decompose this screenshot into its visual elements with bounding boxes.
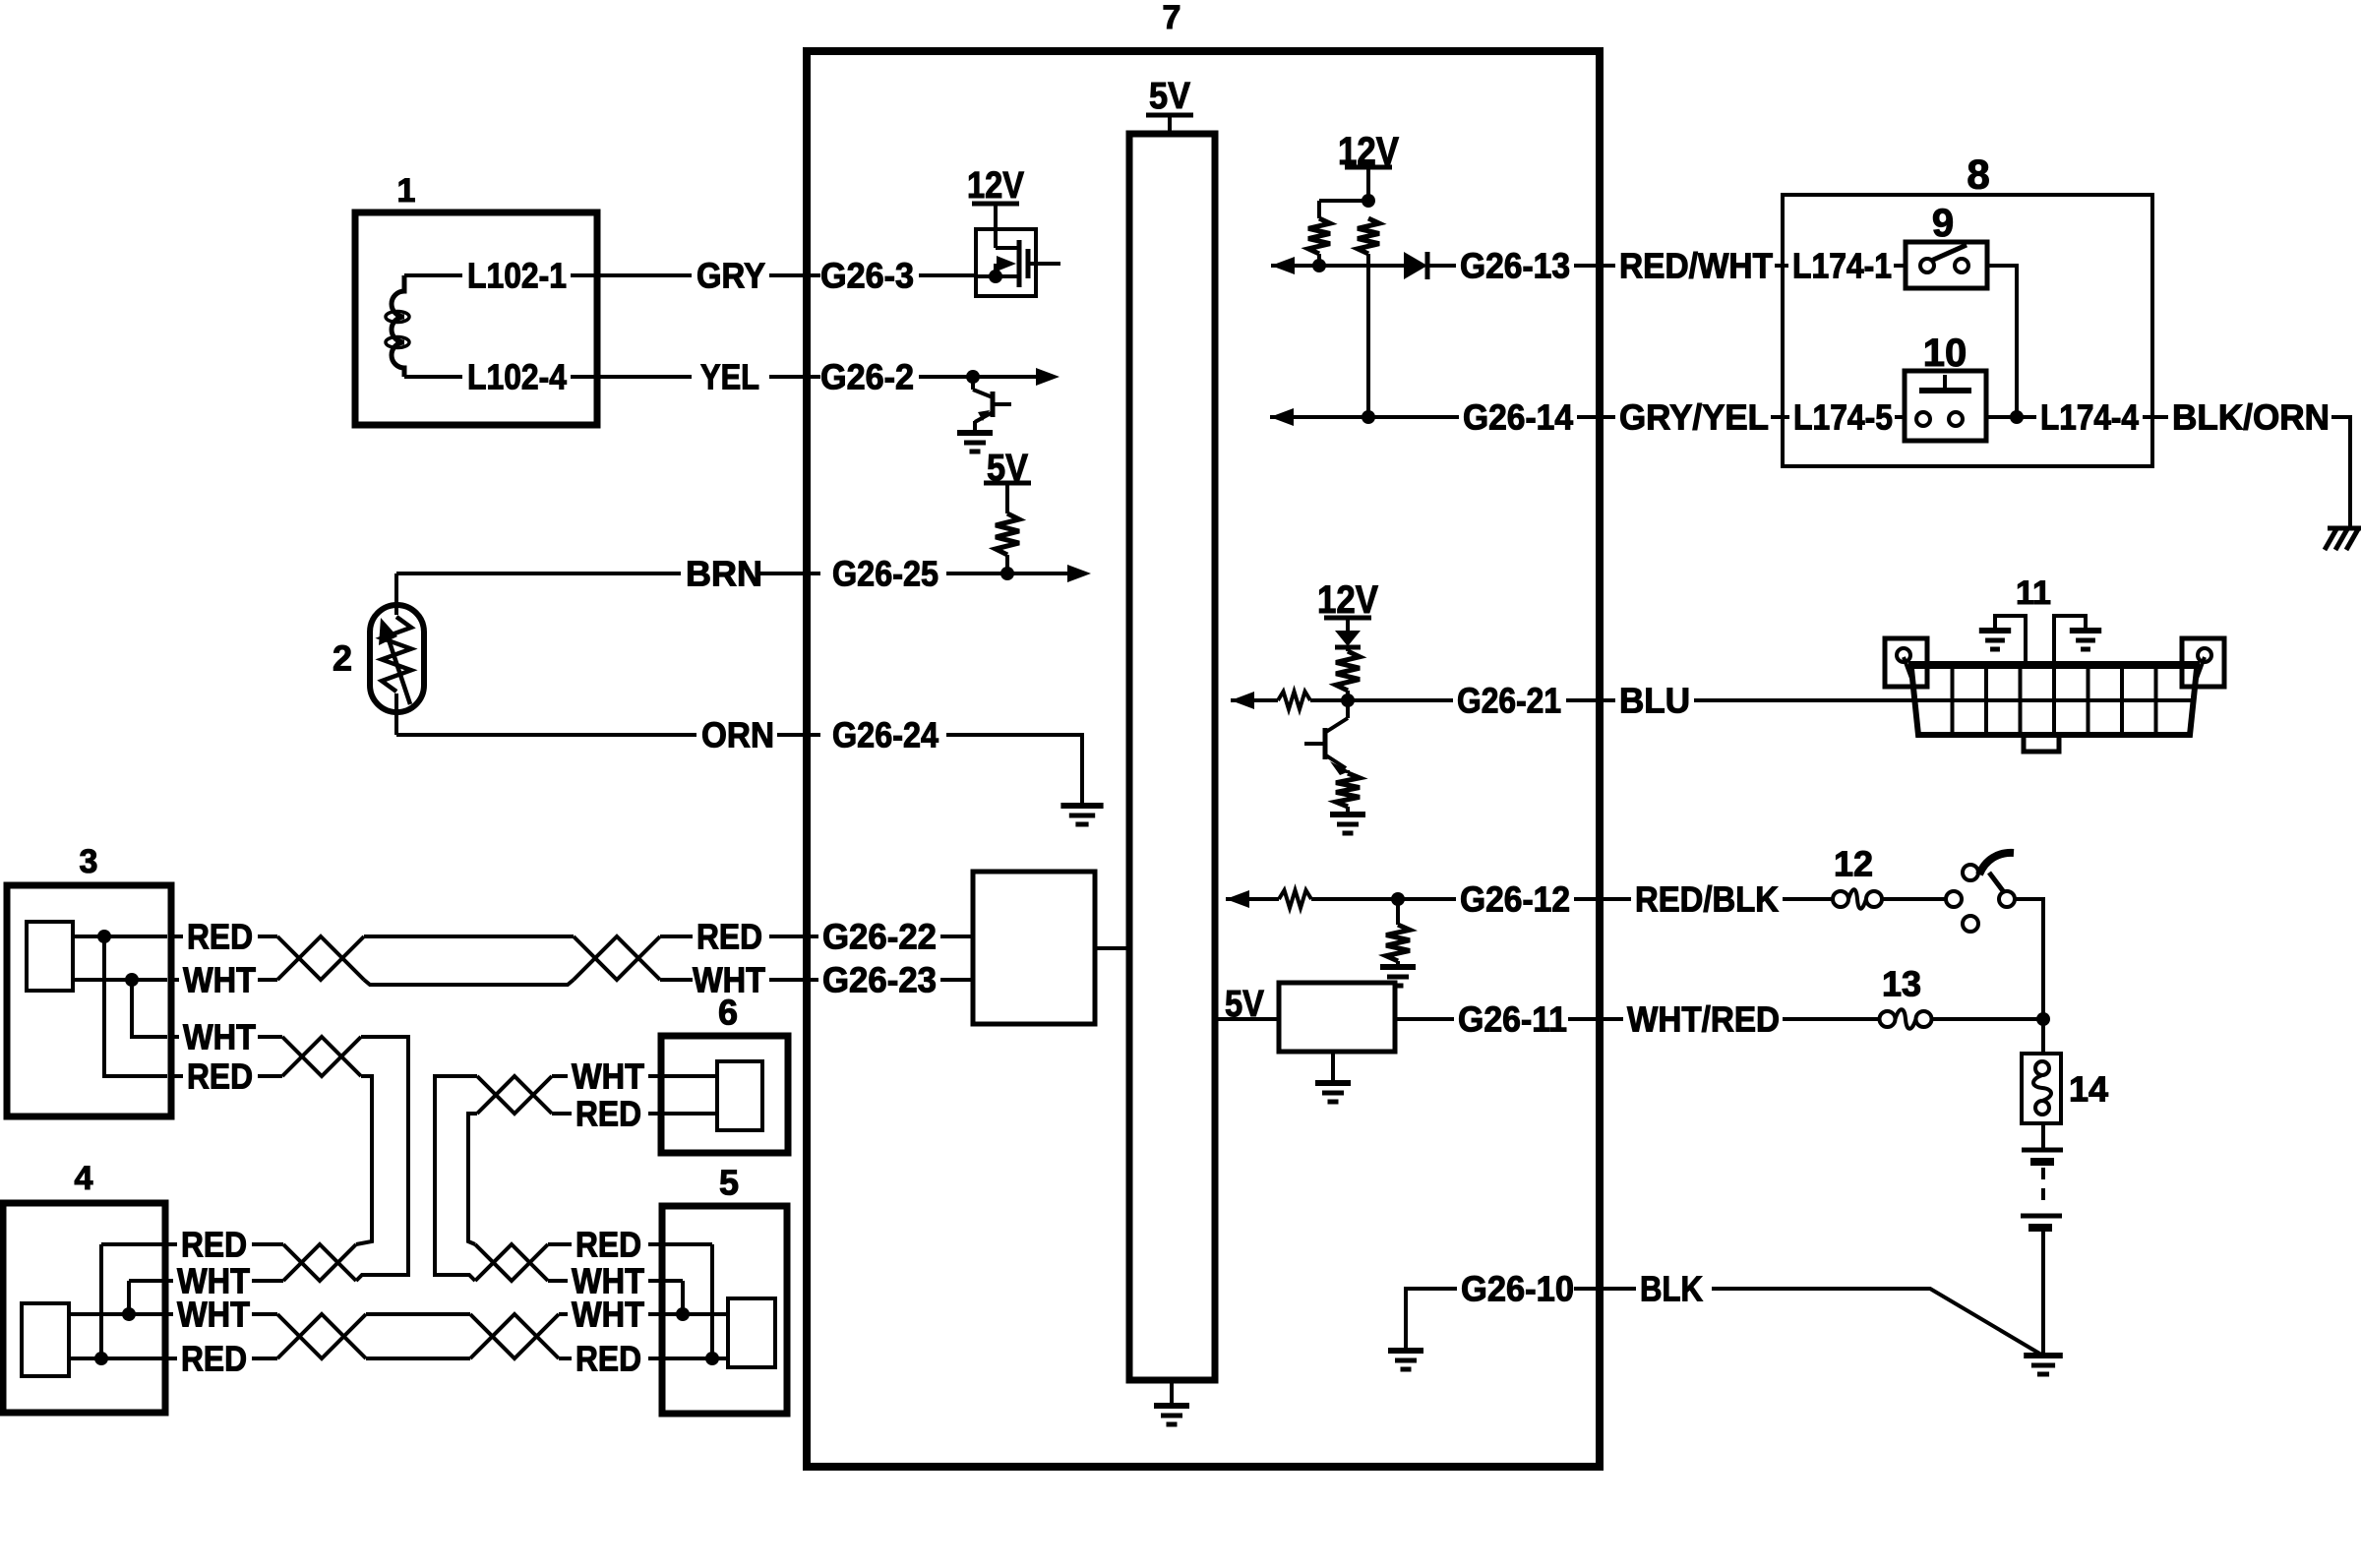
wire converter to microprocessor [1095,946,1127,950]
chassis ground far right [2328,526,2361,531]
speaker element in box 5 [728,1298,775,1367]
svg-text:L102-1: L102-1 [467,256,567,296]
stub RED2 to box5 [648,1357,662,1360]
switch 9 box [1906,242,1987,288]
wire switch 10 to junction [1986,415,2017,419]
svg-text:WHT: WHT [177,1295,250,1335]
svg-text:L174-5: L174-5 [1793,397,1893,438]
svg-text:12: 12 [1834,844,1873,884]
wire G26-14 to box7 edge [1577,415,1615,419]
svg-text:L102-4: L102-4 [467,357,567,397]
connector 11 left tab [1885,638,1927,687]
MOSFET Q1 drain wire [1028,262,1060,266]
svg-text:GRY: GRY [696,256,765,296]
resistor R4 down across G26-13 [1366,254,1370,417]
box4 wiring WHT row3 [69,1312,163,1316]
switch 10 plunger [1943,375,1947,391]
wire G26-14 to label [1368,415,1459,419]
wire ignition switch to corner [2015,899,2043,1013]
wire G26-3 to MOSFET [919,273,976,277]
junction at 12V feed [1362,194,1375,208]
svg-text:G26-21: G26-21 [1457,681,1561,721]
box6 wiring WHT [661,1074,717,1078]
ground below R9 [1380,964,1416,970]
pair D lower run [366,1357,470,1360]
twisted pair crossover A1 [277,936,364,980]
box3 wiring lower RED [104,936,167,1076]
wire G26-2 to junction [919,375,973,379]
svg-text:8: 8 [1967,151,1989,198]
wire BRN to box7 [760,572,820,575]
box3 wiring WHT [73,978,167,982]
resistor R5 below diode [1346,647,1350,651]
svg-text:ORN: ORN [701,715,774,755]
ground on G26-24 [1060,803,1103,809]
wire junction to label [1348,698,1453,702]
svg-text:RED: RED [181,1225,247,1265]
svg-text:GRY/YEL: GRY/YEL [1619,397,1769,438]
wire RED to twist C [252,1242,283,1246]
wire resistor to junction [1310,698,1348,702]
wire G26-12 to box7 edge [1574,897,1631,901]
wire fuse 12 to ignition switch [1882,897,1946,901]
svg-text:WHT/RED: WHT/RED [1627,999,1780,1040]
thermistor 2 lead wires [394,573,398,615]
transistor Q3 (NPN) below junction [1346,700,1350,718]
connector 11 bottom tab [2024,738,2059,752]
bracket outer box6-box5 [435,1076,477,1281]
component box 1 [355,212,597,425]
wire L102-1 to box1 edge [571,273,597,277]
series resistor R6 on G26-21 [1278,692,1310,709]
svg-text:WHT: WHT [572,1295,644,1335]
svg-text:G26-23: G26-23 [822,960,937,1000]
wire G26-13 to box7 edge [1574,264,1615,268]
svg-text:BLK/ORN: BLK/ORN [2172,397,2330,438]
wire junction to L174-4 [2017,415,2036,419]
svg-text:4: 4 [75,1160,93,1197]
fuse 13 [1880,1011,1896,1027]
box6 wiring RED [661,1112,717,1116]
voltage regulator box [1279,983,1395,1052]
svg-text:5V: 5V [1149,76,1191,117]
wire WHT to twist B [258,1035,282,1039]
wire G26-23 to converter [940,978,973,982]
svg-text:G26-14: G26-14 [1463,397,1573,438]
wire twist E to RED label [552,1112,572,1116]
thermistor 2 arrow [388,636,410,704]
wire L174-4 to box8 edge [2143,415,2168,419]
wire G26-11 to box7 edge [1568,1017,1623,1021]
wire G26-10 to inner ground [1406,1289,1457,1351]
switch assembly box 8 [1783,195,2152,466]
fuse 12 [1833,891,1848,907]
svg-text:11: 11 [2016,574,2051,612]
wire WHT to twist A1 [258,978,277,982]
speaker element in box 4 [22,1303,69,1376]
stub box4 edge to WHT [165,1279,173,1283]
switch 10 contacts [1916,412,1930,426]
wire WHT to box7 edge [769,978,818,982]
wire twist G to WHT label [559,1312,568,1316]
wire G26-13 to diode [1319,264,1404,268]
svg-text:1: 1 [397,172,416,210]
radio/amplifier unit box 7 [807,51,1600,1467]
pull-up resistor R2 [996,513,1019,555]
wire battery to ground [2041,1232,2045,1356]
arrow G26-21 to microprocessor [1231,692,1254,709]
wire RED/WHT to box8 [1775,264,1788,268]
wire thermistor top to BRN [396,572,681,575]
wire twist F to RED label [548,1242,572,1246]
wire ORN to box7 [777,733,820,737]
wire BLU to connector 11 [1694,698,1912,702]
wire G26-25 junction arrow [946,572,1007,575]
bracket inner box3-box4 [356,1076,372,1244]
ground below transistor Q2 [957,430,993,436]
connector 11 tab links [1904,657,1915,689]
wire box1 to YEL [597,375,692,379]
stub box4 edge to WHT2 [165,1312,173,1316]
svg-text:12V: 12V [967,165,1025,207]
svg-text:RED: RED [181,1339,247,1379]
ignition switch contacts [1946,891,1962,907]
twisted pair crossover B [282,1037,361,1076]
svg-text:L174-1: L174-1 [1792,246,1892,286]
svg-text:3: 3 [80,843,98,880]
emitter resistor R7 [1346,770,1350,773]
svg-text:RED: RED [575,1339,641,1379]
battery B1 [2022,1148,2063,1153]
stub RED to box5 [648,1242,662,1246]
thermistor 2 oval [370,605,424,712]
svg-text:BLK: BLK [1640,1269,1703,1309]
box4 wiring upper RED [101,1242,163,1246]
connector 11 right ground hook [2054,616,2086,665]
svg-text:5V: 5V [1225,984,1265,1025]
switch 9 contacts [1920,259,1934,272]
wire switch 9 to corner [1987,266,2017,417]
box5 wiring WHT row3 [662,1312,728,1316]
connector 11 grid [1951,669,1955,735]
box3 wiring lower WHT [132,980,167,1037]
twisted pair crossover E [477,1076,552,1114]
pull-up resistor R3 [1308,218,1330,254]
microprocessor bar U1 [1129,134,1215,1380]
wire BLK/ORN to ground [2331,417,2350,527]
wire L102-4 to box1 edge [571,375,597,379]
svg-text:6: 6 [718,993,738,1033]
resistor R3 to G26-13 junction [1317,254,1321,266]
wire thermistor bottom to ORN [396,733,696,737]
speaker box 6 [661,1036,788,1153]
junction on G26-2 [966,370,980,384]
inductor L102 coil [392,275,404,377]
wire diode to label [1427,264,1456,268]
switch 9 lever [1931,245,1967,261]
ground below R7 [1330,812,1365,817]
wire RED to box7 edge [769,935,818,938]
wire resistor R8 to junction [1311,897,1398,901]
stub RED to box6 [648,1112,661,1116]
ground below battery [2024,1353,2063,1358]
svg-text:WHT: WHT [183,960,256,1000]
fuse 14 [2035,1061,2049,1075]
svg-text:12V: 12V [1317,578,1378,622]
ground below microprocessor [1170,1380,1174,1406]
stub box3 edge to RED [171,935,183,938]
svg-text:G26-3: G26-3 [820,256,914,296]
svg-text:RED/WHT: RED/WHT [1619,246,1773,286]
MOSFET Q1 gate bend [996,246,1017,250]
wire twist A2 to RED label [660,935,693,938]
MOSFET Q1 source arrow [994,264,998,276]
twisted pair crossover F [475,1244,548,1281]
stub WHT2 to box5 [648,1312,662,1316]
svg-text:10: 10 [1923,332,1967,375]
wire L174-5 to switch 10 [1895,415,1905,419]
box4 wiring upper WHT [129,1279,163,1283]
pull-down resistor R9 [1396,899,1400,925]
wire G26-3 into MOSFET with junction [976,274,1017,278]
connector 11 left ground [1979,628,2011,633]
wire G26-22 to converter [940,935,973,938]
A/D converter box [973,872,1095,1024]
stub box3 edge to RED2 [171,1074,183,1078]
wire BLK to battery ground [1712,1289,2041,1355]
svg-text:13: 13 [1882,964,1921,1004]
pull-up resistor R4 [1358,218,1379,254]
speaker element in box 6 [717,1061,762,1130]
svg-text:9: 9 [1932,202,1954,245]
svg-text:G26-22: G26-22 [822,917,937,957]
diode D3 [1335,631,1361,646]
connector 11 body [1908,661,2200,669]
wire RED to twist D [252,1357,277,1360]
stub WHT to box6 [648,1074,661,1078]
svg-text:YEL: YEL [700,357,759,397]
stub box3 edge to WHT2 [171,1035,179,1039]
wire junction down to fuse 14 [2041,1019,2045,1054]
svg-text:BRN: BRN [686,554,762,594]
wire microprocessor to regulator [1217,1017,1279,1021]
stub box3 edge to WHT [171,978,179,982]
inner ground on G26-10 [1388,1348,1423,1354]
svg-text:BLU: BLU [1619,681,1690,721]
bracket inner box6-box5 [468,1114,477,1244]
wire RED/BLK to fuse 12 [1783,897,1833,901]
svg-text:14: 14 [2069,1069,2108,1110]
box3 wiring RED [73,935,167,938]
wire twist E to WHT label [552,1074,568,1078]
pair D upper run [366,1312,470,1316]
MOSFET Q1 channel plate [1026,249,1031,278]
svg-text:WHT: WHT [183,1017,256,1057]
wire RED to twist B [258,1074,282,1078]
resistor R2 to junction [1005,555,1009,573]
svg-text:G26-25: G26-25 [832,554,938,594]
MOSFET Q1 gate plate [1017,240,1022,287]
wire fuse 13 to junction [1931,1017,2043,1021]
svg-text:G26-12: G26-12 [1460,879,1570,920]
wire WHT to twist D [252,1312,277,1316]
ignition switch lever [1989,873,2004,892]
wire RED to twist A1 [258,935,277,938]
svg-text:7: 7 [1163,0,1181,36]
arrow G26-13 to microprocessor [1271,257,1295,274]
svg-text:G26-10: G26-10 [1461,1269,1574,1309]
wire L174-1 to switch 9 [1894,264,1906,268]
svg-text:RED/BLK: RED/BLK [1635,879,1779,920]
svg-text:2: 2 [333,638,352,679]
bracket outer box3-box4 [356,1037,408,1281]
connector 11 right ground [2070,628,2101,633]
wire GRY/YEL to box8 [1771,415,1789,419]
wire fuse 14 to battery [2041,1123,2045,1150]
pair A upper run [364,935,574,938]
box5 wiring RED row4 [662,1357,728,1360]
twisted pair crossover A2 [574,936,660,980]
MOSFET Q1 box [976,229,1036,296]
thermistor 2 resistor [382,617,411,692]
svg-text:G26-2: G26-2 [820,357,914,397]
svg-text:RED: RED [187,1056,253,1097]
speaker element in box 3 [27,922,73,991]
wire twist A2 to WHT label [660,978,693,982]
wire YEL to G26-2 [769,375,820,379]
svg-text:G26-13: G26-13 [1460,246,1570,286]
svg-text:RED: RED [575,1225,641,1265]
arrow G26-12 to microprocessor [1226,890,1249,908]
svg-text:RED: RED [696,917,762,957]
svg-text:G26-24: G26-24 [832,715,938,755]
wire regulator to label [1395,1017,1454,1021]
wire box1 to GRY [597,273,692,277]
wire coil to pin L102-4 [404,375,462,379]
svg-text:WHT: WHT [572,1056,644,1097]
speaker box 4 [3,1203,165,1413]
stub box4 edge to RED [165,1242,177,1246]
connector 11 left ground hook [1995,616,2026,665]
wire twist G to RED label [559,1357,572,1360]
wire WHT/RED to fuse 13 [1783,1017,1879,1021]
box5 wiring WHT [662,1279,683,1283]
wire G26-24 to ground [946,735,1082,806]
series resistor R8 on G26-12 [1279,890,1311,908]
box5 wiring RED [662,1242,712,1246]
svg-text:L174-4: L174-4 [2040,397,2139,438]
speaker box 5 [662,1206,787,1414]
svg-text:G26-11: G26-11 [1458,999,1567,1040]
diode D2 on G26-13 [1404,252,1427,279]
wire junction to label [1398,897,1456,901]
arrow G26-2 to microprocessor [973,375,1036,379]
wire GRY to G26-3 [769,273,820,277]
wire coil to pin L102-1 [404,273,462,277]
wire twist F to WHT label [548,1279,568,1283]
pair A lower run [364,980,574,985]
svg-text:RED: RED [187,917,253,957]
switch 10 box [1905,371,1986,441]
stub box4 edge to RED2 [165,1357,177,1360]
junction on G26-21 [1341,694,1355,707]
twisted pair crossover G [470,1314,559,1358]
wire G26-21 to box7 edge [1566,698,1615,702]
twisted pair crossover C [283,1244,356,1281]
arrow G26-14 to microprocessor [1270,408,1294,426]
junction G26-14 pull-up [1362,410,1375,424]
fuse 14 box [2022,1054,2061,1123]
regulator ground [1331,1052,1335,1083]
stub WHT to box5 [648,1279,662,1283]
wire WHT to twist C [252,1279,283,1283]
twisted pair crossover D [277,1314,366,1358]
box4 wiring RED row4 [69,1357,163,1360]
svg-text:5: 5 [719,1163,739,1203]
connector 11 right tab [2182,638,2224,687]
wire G26-10 to box7 edge [1574,1287,1636,1291]
svg-text:RED: RED [575,1094,641,1134]
speaker box 3 [7,885,171,1116]
transistor Q2 (PNP) on G26-2 [971,377,975,390]
